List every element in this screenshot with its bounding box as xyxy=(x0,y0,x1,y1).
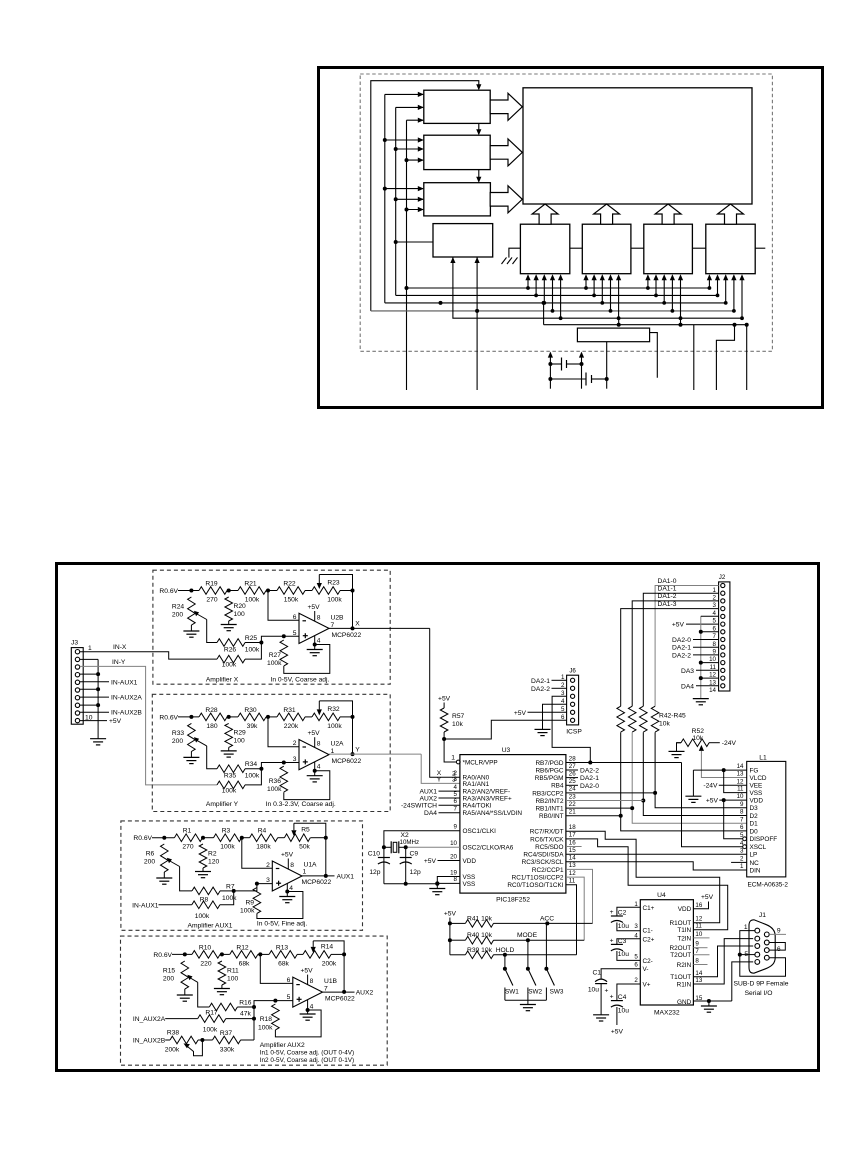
svg-text:3: 3 xyxy=(293,756,297,763)
bus6 extension riser xyxy=(680,318,682,325)
wire xyxy=(228,747,230,751)
junction xyxy=(475,309,479,313)
svg-text:100k: 100k xyxy=(245,597,260,604)
svg-text:R29: R29 xyxy=(234,729,247,736)
svg-text:100k: 100k xyxy=(240,908,255,915)
wire +5V pin 8 xyxy=(287,859,289,870)
node xyxy=(189,715,193,719)
capacitor symbol 2 xyxy=(550,378,586,380)
schematic border xyxy=(57,564,819,1071)
svg-text:2: 2 xyxy=(266,862,270,869)
connector J2 body xyxy=(719,582,730,691)
svg-text:C4: C4 xyxy=(618,994,627,1001)
wire xyxy=(165,1018,198,1020)
svg-text:DA4: DA4 xyxy=(681,683,694,690)
wire to plus riser xyxy=(234,884,273,891)
svg-text:D2: D2 xyxy=(750,813,759,820)
svg-text:R41 10k: R41 10k xyxy=(467,915,493,922)
svg-text:R40 10k: R40 10k xyxy=(467,932,493,939)
riser into bottom box xyxy=(671,276,673,311)
svg-text:R15: R15 xyxy=(163,968,176,975)
wire DA1-0/RB3/D3 xyxy=(655,732,747,808)
svg-text:DA4: DA4 xyxy=(424,810,437,817)
junction xyxy=(551,309,555,313)
wire xyxy=(190,625,192,631)
switch drop wire xyxy=(545,923,547,968)
connector J2 pin 3 circle xyxy=(721,599,725,603)
potentiometer R15 xyxy=(181,961,189,989)
riser into bottom box xyxy=(552,276,554,311)
wire xyxy=(202,868,204,872)
svg-text:4: 4 xyxy=(289,885,293,892)
wire C1 to ground xyxy=(600,984,602,1015)
svg-text:50k: 50k xyxy=(299,844,310,851)
junction xyxy=(405,158,409,162)
arrowhead xyxy=(678,274,683,280)
wire xyxy=(165,1039,170,1041)
svg-text:R34: R34 xyxy=(245,761,258,768)
junction xyxy=(404,882,408,886)
svg-text:C2+: C2+ xyxy=(643,937,655,944)
junction xyxy=(439,301,443,305)
wire J6 pin6 to MCLR node xyxy=(444,720,566,739)
svg-text:3: 3 xyxy=(266,877,270,884)
svg-text:+5V: +5V xyxy=(611,1029,624,1036)
MCLR bubble xyxy=(456,760,460,764)
node xyxy=(282,761,286,765)
svg-text:4: 4 xyxy=(317,638,321,645)
ground U4 xyxy=(701,1005,717,1007)
ground U1A xyxy=(279,896,295,898)
svg-text:2: 2 xyxy=(561,682,565,689)
svg-text:22: 22 xyxy=(569,801,576,808)
box4 right riser xyxy=(476,258,478,391)
switch blade xyxy=(528,969,536,986)
svg-text:RA5/AN4/*SS/LVDIN: RA5/AN4/*SS/LVDIN xyxy=(463,810,523,817)
arrowhead xyxy=(418,137,424,142)
resistor R13 xyxy=(269,951,297,959)
svg-text:SUB-D 9P Female: SUB-D 9P Female xyxy=(734,980,789,987)
ground U3 xyxy=(429,888,445,890)
ground R2 xyxy=(195,871,211,873)
svg-text:12: 12 xyxy=(569,870,576,877)
wire xyxy=(221,985,223,989)
arrowhead xyxy=(653,274,658,280)
connector J1 left pin 1 xyxy=(755,928,760,933)
svg-text:DA3: DA3 xyxy=(681,668,694,675)
svg-text:200: 200 xyxy=(163,976,174,983)
wire xyxy=(184,989,186,995)
arrowhead xyxy=(608,274,613,280)
connector J2 pin 9 circle xyxy=(721,645,725,649)
svg-text:R2OUT: R2OUT xyxy=(670,945,692,952)
svg-text:R35: R35 xyxy=(224,772,237,779)
resistor R36 xyxy=(280,766,288,792)
riser into bottom box xyxy=(535,276,537,296)
svg-text:3: 3 xyxy=(561,690,565,697)
svg-text:R19: R19 xyxy=(205,581,218,588)
ground R29 xyxy=(221,750,237,752)
arrowhead xyxy=(731,274,736,280)
arrowhead xyxy=(418,105,424,110)
arrow wire into block box xyxy=(407,159,424,161)
wire DA1-1/RB2/D2 xyxy=(643,732,746,815)
resistor R40 xyxy=(465,936,493,944)
svg-text:7: 7 xyxy=(740,816,744,823)
wire X to RA0 xyxy=(430,628,460,777)
svg-text:+5V: +5V xyxy=(438,696,451,703)
wire C2- lead xyxy=(617,951,640,960)
connector J3 pin 2 circle xyxy=(75,657,79,661)
resistor R21 xyxy=(238,587,266,595)
resistor R57 xyxy=(440,708,448,732)
junction xyxy=(383,138,387,142)
ground R24 xyxy=(183,630,199,632)
R6 wiper arrow xyxy=(167,858,172,864)
svg-text:13: 13 xyxy=(569,862,576,869)
svg-text:R0.6V: R0.6V xyxy=(159,588,178,595)
svg-text:R32: R32 xyxy=(327,706,340,713)
bottom block box C xyxy=(644,224,693,274)
svg-text:+5V: +5V xyxy=(424,858,437,865)
junction xyxy=(630,806,634,810)
svg-text:C1-: C1- xyxy=(643,927,653,934)
svg-text:1: 1 xyxy=(634,901,638,908)
junction xyxy=(699,661,703,665)
wire xyxy=(163,872,165,878)
svg-text:D1: D1 xyxy=(750,821,759,828)
wire xyxy=(220,890,234,892)
arrowhead xyxy=(723,274,728,280)
svg-text:VSS: VSS xyxy=(750,790,763,797)
wire T1OUT to J1 pin3 xyxy=(693,946,753,977)
junction xyxy=(740,316,744,320)
wire xyxy=(450,939,466,941)
arrow wire into block box xyxy=(385,188,423,190)
svg-text:D0: D0 xyxy=(750,828,759,835)
svg-text:180k: 180k xyxy=(256,844,271,851)
wire xyxy=(314,771,316,776)
connector J3 body xyxy=(71,648,83,725)
wire between boxes B-C xyxy=(631,247,644,249)
resistor R30 xyxy=(238,713,266,721)
junction xyxy=(588,761,592,765)
wire R52 wiper to VLCD xyxy=(701,751,746,778)
wire RC5/SDO stub xyxy=(566,846,582,848)
dashed box Amplifier AUX2 xyxy=(121,936,388,1065)
svg-text:-24V: -24V xyxy=(703,783,718,790)
svg-text:VLCD: VLCD xyxy=(750,775,767,782)
wire C1- lead xyxy=(617,923,640,931)
svg-text:220k: 220k xyxy=(284,723,299,730)
svg-text:10: 10 xyxy=(450,840,457,847)
node xyxy=(285,890,289,894)
node xyxy=(227,589,231,593)
resistor R42-R45 element xyxy=(651,706,659,732)
wire RC2 to ACC xyxy=(566,869,593,923)
svg-text:ACC: ACC xyxy=(540,915,554,922)
resistor R31 xyxy=(277,713,305,721)
svg-text:10k: 10k xyxy=(659,721,670,728)
svg-text:X: X xyxy=(355,621,360,628)
svg-text:OSC1/CLKI: OSC1/CLKI xyxy=(463,828,497,835)
svg-text:1: 1 xyxy=(88,645,92,652)
op-amp U1A xyxy=(272,861,302,891)
svg-text:14: 14 xyxy=(695,970,702,977)
junction xyxy=(548,377,552,381)
IC U3 body xyxy=(460,755,566,894)
arrowhead xyxy=(525,274,530,280)
svg-text:R12: R12 xyxy=(236,944,249,951)
wire pin 4 xyxy=(314,636,316,645)
resistor R8 xyxy=(192,901,220,909)
node xyxy=(324,874,328,878)
potentiometer R14 xyxy=(303,951,331,959)
svg-text:ECM-A0635-2: ECM-A0635-2 xyxy=(748,882,789,889)
svg-text:100k: 100k xyxy=(222,895,237,902)
junction xyxy=(716,294,720,298)
crystal X2 xyxy=(390,841,392,853)
node xyxy=(259,767,263,771)
connector J3 pin 1 circle xyxy=(75,650,79,654)
svg-text:DA1-1: DA1-1 xyxy=(658,586,677,593)
ground R52 xyxy=(669,750,685,752)
wire DA1-3/RB0/D0 xyxy=(621,732,747,831)
bus line 3 xyxy=(385,302,726,304)
junction xyxy=(653,791,657,795)
wire xyxy=(190,751,192,757)
wire GND row xyxy=(693,1000,731,1002)
riser into bottom box xyxy=(601,276,603,303)
arrowhead into box2 xyxy=(476,129,481,135)
node xyxy=(183,952,187,956)
ground J6 xyxy=(535,728,551,730)
wire xyxy=(278,837,285,839)
arrowhead xyxy=(558,274,563,280)
svg-text:DA2-1: DA2-1 xyxy=(672,645,691,652)
wire xyxy=(297,953,303,955)
wire RC3 to DIN xyxy=(566,862,747,870)
svg-text:5: 5 xyxy=(634,954,638,961)
ground R20 xyxy=(221,624,237,626)
resistor R9 xyxy=(253,888,261,914)
svg-text:RB3/CCP2: RB3/CCP2 xyxy=(532,790,564,797)
wire xyxy=(677,742,682,744)
connector J2 pin 8 circle xyxy=(721,637,725,641)
resistor R42-R45 element xyxy=(640,706,648,732)
junction xyxy=(405,208,409,212)
node xyxy=(306,1008,310,1012)
svg-text:GND: GND xyxy=(677,999,692,1006)
wire xyxy=(331,953,344,955)
arrowhead xyxy=(418,118,424,123)
wire J2 ground bus xyxy=(700,616,702,698)
svg-text:5: 5 xyxy=(454,791,458,798)
svg-text:+5V: +5V xyxy=(514,710,527,717)
svg-text:IN_AUX2B: IN_AUX2B xyxy=(133,1038,166,1045)
ground L1 FG xyxy=(685,795,701,797)
svg-text:180: 180 xyxy=(206,723,217,730)
arrowhead up xyxy=(579,352,584,358)
switch lower lead xyxy=(504,988,506,1001)
bus line 1 xyxy=(407,287,710,289)
arrowhead xyxy=(542,274,547,280)
svg-text:VDD: VDD xyxy=(678,906,692,913)
wire xyxy=(220,953,230,955)
junction xyxy=(679,316,683,320)
svg-text:+5V: +5V xyxy=(109,718,122,725)
connector J1 right pin 9 xyxy=(764,955,769,960)
svg-text:U2A: U2A xyxy=(331,741,345,748)
wire xyxy=(436,883,438,888)
resistor R39 xyxy=(465,951,493,959)
wire R27 to ground node xyxy=(284,645,330,674)
svg-text:200: 200 xyxy=(172,612,183,619)
svg-text:IN-AUX2B: IN-AUX2B xyxy=(111,710,142,717)
svg-text:MCP6022: MCP6022 xyxy=(332,758,362,765)
svg-text:7: 7 xyxy=(454,806,458,813)
svg-text:R9: R9 xyxy=(245,900,254,907)
svg-text:IN-AUX1: IN-AUX1 xyxy=(111,679,138,686)
svg-text:100: 100 xyxy=(227,976,238,983)
svg-text:8: 8 xyxy=(740,809,744,816)
wire R5 wiper to output xyxy=(294,823,326,876)
junction xyxy=(503,953,507,957)
svg-text:U3: U3 xyxy=(502,747,511,754)
arrowhead into box3 xyxy=(476,177,481,183)
svg-text:R2IN: R2IN xyxy=(677,962,692,969)
op-amp U2A xyxy=(299,740,329,770)
potentiometer R5 xyxy=(284,834,310,842)
svg-text:1: 1 xyxy=(451,754,455,761)
ground J2 xyxy=(693,698,709,700)
wire xyxy=(245,643,261,660)
wire FG-VSS tie xyxy=(724,770,747,793)
svg-text:R39 10k: R39 10k xyxy=(467,947,493,954)
svg-text:220: 220 xyxy=(200,960,211,967)
svg-text:47k: 47k xyxy=(240,1011,251,1018)
riser A3 extension to bus6 xyxy=(543,303,545,325)
block box 1 xyxy=(424,90,490,123)
junction xyxy=(405,286,409,290)
svg-text:14: 14 xyxy=(569,855,576,862)
potentiometer R23 xyxy=(312,587,340,595)
wire xyxy=(241,1039,255,1041)
svg-text:11: 11 xyxy=(737,786,744,793)
junction xyxy=(545,921,549,925)
junction xyxy=(592,294,596,298)
connector J2 pin 2 circle xyxy=(721,591,725,595)
wire pin8 stub xyxy=(80,704,98,706)
wire DA1-3 xyxy=(621,609,719,707)
junction xyxy=(605,377,609,381)
wire xyxy=(439,790,460,792)
wire DA1-1 xyxy=(643,593,718,706)
svg-text:120: 120 xyxy=(208,859,219,866)
wire R14 wiper to output xyxy=(313,941,344,992)
hollow arrow to large box xyxy=(490,139,522,166)
wire pin7 stub xyxy=(80,696,109,698)
wire DA4 stub xyxy=(696,685,719,687)
wire xyxy=(340,716,353,718)
svg-text:R22: R22 xyxy=(283,581,296,588)
svg-text:100: 100 xyxy=(234,611,245,618)
wire crystal ground rail xyxy=(384,883,437,885)
wire FG tie xyxy=(693,769,746,771)
svg-text:1: 1 xyxy=(744,924,748,931)
svg-text:RB0/INT: RB0/INT xyxy=(539,813,564,820)
junction xyxy=(617,316,621,320)
svg-text:NC: NC xyxy=(750,860,760,867)
wire xyxy=(305,590,312,592)
node xyxy=(258,952,262,956)
ground R15 xyxy=(177,994,193,996)
svg-text:C9: C9 xyxy=(410,851,419,858)
resistor R16 xyxy=(209,1003,237,1011)
arrowhead xyxy=(418,197,424,202)
wire RC6/TX to T1IN xyxy=(566,839,728,930)
connector J2 pin 13 circle xyxy=(721,676,725,680)
svg-text:R1OUT: R1OUT xyxy=(670,920,692,927)
svg-text:MCP6022: MCP6022 xyxy=(325,996,355,1003)
node xyxy=(259,641,263,645)
dashed box Amplifier Y xyxy=(152,694,390,811)
junction xyxy=(722,768,726,772)
node xyxy=(324,836,328,840)
R5 wiper arrow xyxy=(291,830,296,836)
arrowhead xyxy=(645,274,650,280)
wire xyxy=(152,837,174,839)
arrow wire into block box xyxy=(407,209,424,211)
wire xyxy=(443,732,445,739)
node xyxy=(220,952,224,956)
wire J1 pin1 loop xyxy=(740,931,786,977)
R38 wiper arrow xyxy=(184,1043,190,1048)
hollow arrow to large box xyxy=(490,93,522,120)
svg-text:68k: 68k xyxy=(278,960,289,967)
DISPOFF bubble xyxy=(743,837,747,841)
riser into bottom box xyxy=(585,276,587,289)
svg-text:VDD: VDD xyxy=(750,798,764,805)
svg-text:9: 9 xyxy=(777,928,781,935)
connector J1 left pin 4 xyxy=(755,952,760,957)
wire xyxy=(443,703,445,709)
junction xyxy=(394,197,398,201)
wire xyxy=(527,1000,529,1004)
svg-text:VSS: VSS xyxy=(463,881,476,888)
svg-text:DA1-0: DA1-0 xyxy=(658,578,677,585)
wire xyxy=(172,953,192,955)
wire C2+ lead xyxy=(617,939,640,945)
wire riser to plus input xyxy=(254,1001,293,1007)
svg-text:3: 3 xyxy=(634,923,638,930)
wire xyxy=(384,846,391,848)
svg-text:RB6/PGC: RB6/PGC xyxy=(535,767,563,774)
svg-text:T1IN: T1IN xyxy=(677,927,691,934)
svg-text:100k: 100k xyxy=(220,844,235,851)
switch drop wire xyxy=(504,955,506,969)
connector J6 body xyxy=(567,675,579,725)
wire VDD to +5V xyxy=(693,902,708,909)
wire xyxy=(439,804,460,806)
node xyxy=(252,1017,256,1021)
dashed box Amplifier AUX1 xyxy=(121,821,363,930)
connector J2 pin 14 circle xyxy=(721,684,725,688)
svg-text:Serial I/O: Serial I/O xyxy=(745,990,773,997)
arrowhead xyxy=(600,274,605,280)
svg-text:R25: R25 xyxy=(245,635,258,642)
wire +5V to J2 pin6 xyxy=(686,623,719,625)
